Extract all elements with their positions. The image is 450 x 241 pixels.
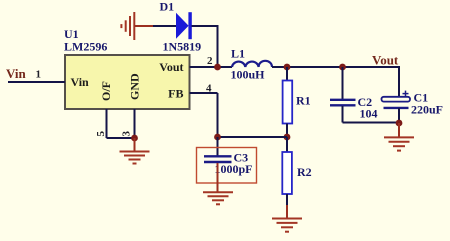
resistor R1 — [283, 67, 293, 137]
svg-text:Vout: Vout — [159, 60, 183, 74]
resistor R2 — [282, 137, 292, 206]
svg-text:R1: R1 — [296, 94, 311, 108]
pin 2 wire (Vout) — [190, 66, 218, 68]
capacitor C1 (electrolytic) — [382, 91, 411, 123]
svg-text:104: 104 — [360, 107, 378, 121]
svg-text:FB: FB — [168, 87, 183, 101]
svg-text:220uF: 220uF — [411, 103, 443, 117]
wire rail down to C1 — [398, 66, 400, 97]
inductor L1 — [232, 61, 272, 67]
capacitor C2 — [330, 67, 356, 123]
wire L1 to output rail — [272, 66, 399, 68]
svg-text:2: 2 — [207, 55, 213, 67]
svg-text:Vin: Vin — [6, 66, 27, 81]
svg-text:1: 1 — [36, 69, 42, 81]
junction C2 top — [339, 64, 346, 71]
svg-text:100uH: 100uH — [231, 68, 266, 82]
ground under C3 — [203, 163, 233, 204]
wire D1 cathode to node — [192, 25, 218, 27]
junction FB node / R1-R2 — [284, 134, 291, 141]
svg-text:LM2596: LM2596 — [64, 40, 107, 54]
ground under C1/C2 — [384, 123, 414, 151]
diode D1 — [176, 12, 192, 39]
pin 3 wire (GND) — [134, 109, 136, 138]
ground under R2 — [272, 205, 302, 232]
svg-text:GND: GND — [127, 73, 141, 100]
pin 5 wire (O/F) — [106, 109, 108, 138]
junction pins 5/3 — [131, 135, 138, 142]
svg-text:1000pF: 1000pF — [215, 162, 253, 176]
wire node to L1 — [218, 66, 233, 68]
wire FB node horizontal — [218, 136, 288, 138]
pin 4 wire (FB) — [190, 92, 218, 94]
ground under pins 5/3 — [120, 138, 150, 164]
highlight box around C3 — [197, 148, 257, 184]
junction C3 node — [214, 134, 221, 141]
svg-text:L1: L1 — [231, 47, 245, 61]
junction L1/R1 — [284, 64, 291, 71]
svg-text:R2: R2 — [297, 165, 312, 179]
pin 1 wire with net Vin — [8, 81, 65, 83]
wire down to Vout pin node — [217, 25, 219, 67]
svg-text:Vin: Vin — [71, 75, 90, 89]
wire FB down — [217, 93, 219, 137]
svg-text:3: 3 — [121, 131, 133, 137]
ground (rotated) at diode anode — [121, 12, 154, 40]
svg-text:1N5819: 1N5819 — [163, 40, 202, 54]
junction C1/C2 ground node — [396, 120, 403, 127]
svg-text:5: 5 — [95, 131, 107, 137]
wire pin5 to pin3 — [107, 137, 135, 139]
wire C2 bottom to C1 bottom — [343, 122, 400, 124]
svg-text:D1: D1 — [160, 0, 175, 14]
svg-text:O/F: O/F — [99, 81, 113, 101]
svg-text:Vout: Vout — [372, 53, 399, 68]
capacitor C3 — [204, 137, 232, 162]
svg-text:4: 4 — [206, 83, 212, 95]
junction node pin2/D1/L1 — [214, 64, 221, 71]
wire ground to D1 anode — [153, 25, 176, 27]
op-amp U1 body (LM2596 regulator) — [65, 55, 190, 109]
